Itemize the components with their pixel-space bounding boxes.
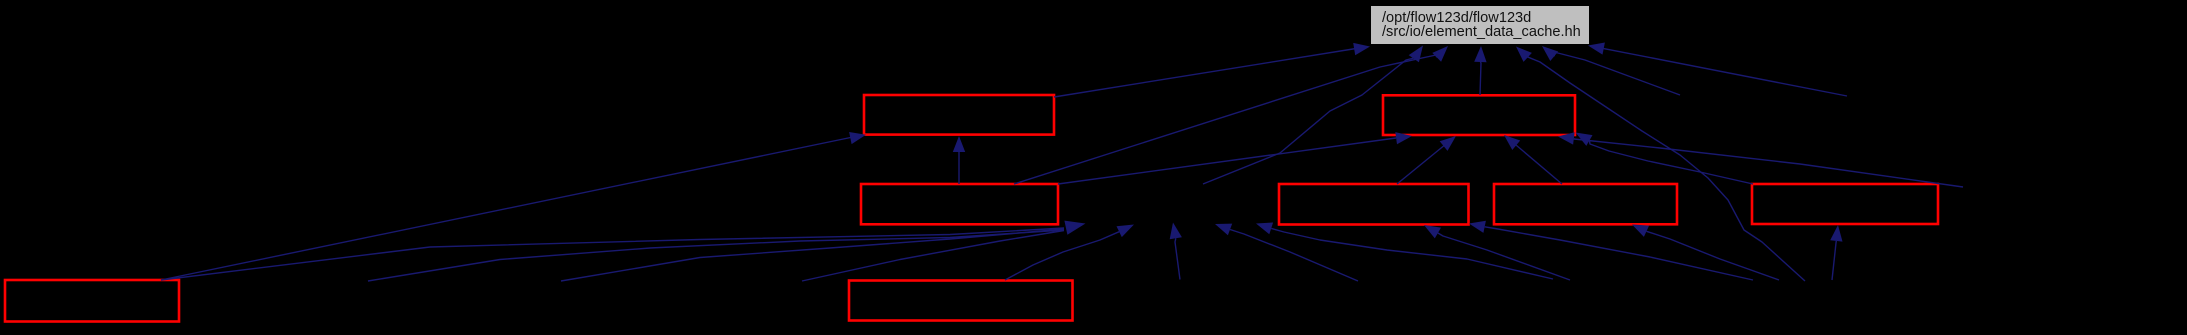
edge BM2b->D <box>1438 233 1570 280</box>
edge R3->B <box>1574 138 1963 187</box>
node F (red, row3) <box>1752 184 1938 224</box>
arrowhead cluster at P bottom-left <box>1064 221 1085 235</box>
edge A->T <box>1054 49 1356 98</box>
edge N2b->T <box>1554 52 1680 95</box>
node E (red, row3) <box>1494 184 1677 224</box>
edge BM2a->P <box>1271 228 1553 279</box>
edge BM1->P (vertical) <box>1175 238 1180 279</box>
edge F->B <box>1589 141 1753 185</box>
edge C->A (vertical) <box>958 150 960 184</box>
edge BR->F (vertical) <box>1832 241 1836 280</box>
edge H->P <box>1005 232 1119 280</box>
edge B->T (vertical) <box>1480 62 1481 95</box>
node A (red, row2 left) <box>864 95 1054 135</box>
edge P->T (curved) <box>1203 58 1414 184</box>
edge BH0->P <box>802 231 1064 282</box>
edge C->B <box>1058 138 1396 184</box>
edge E->B <box>1516 145 1562 184</box>
node D (red, row3) <box>1279 184 1469 225</box>
edge N2a->T <box>1603 48 1847 96</box>
edge BR->E <box>1647 231 1780 280</box>
edge BL3->P (long flat) <box>561 229 1064 281</box>
edge G->P (long flat) <box>161 228 1064 280</box>
edge BR->D <box>1485 227 1753 280</box>
edge BL2->P (long flat) <box>368 230 1064 281</box>
edge G->A <box>161 137 853 280</box>
node H (red, bottom-center) <box>849 281 1073 321</box>
edge BM1b->P <box>1230 230 1358 282</box>
main node: /opt/flow123d/flow123d/src/io/element_data_cache.hh (gray) <box>1371 6 1589 44</box>
node C (red, row3) <box>861 184 1058 224</box>
edge C->T <box>1014 55 1437 184</box>
edge D->B <box>1397 144 1446 184</box>
edge BR->T (long S-curve) <box>1527 57 1805 281</box>
node G (red, bottom-left) <box>5 280 179 322</box>
node B (red, row2 right) <box>1383 95 1575 135</box>
